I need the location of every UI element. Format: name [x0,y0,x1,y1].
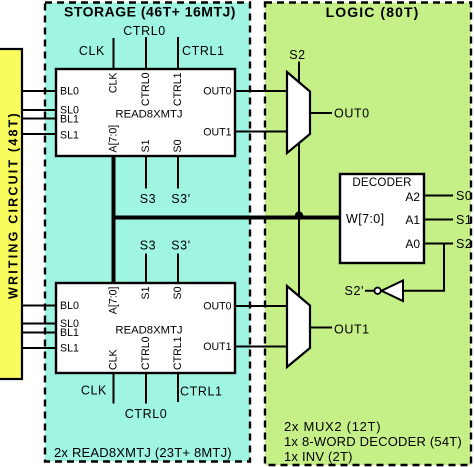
wire select line M1 to bus hop [298,143,300,212]
svg-text:OUT0: OUT0 [334,107,370,121]
svg-text:A0: A0 [405,237,420,251]
wire inverter output stub to node S2' [365,290,374,292]
svg-text:BL1: BL1 [60,114,79,126]
svg-text:BL1: BL1 [60,327,79,339]
wire S2 branch down to inverter [402,244,444,291]
svg-text:S1: S1 [140,139,152,152]
svg-text:CTRL1: CTRL1 [182,44,225,58]
wire S3 to U2 pin S1 [145,254,147,284]
svg-text:LOGIC (80T): LOGIC (80T) [326,4,420,20]
svg-text:BL0: BL0 [60,300,79,312]
svg-text:S2': S2' [345,284,364,298]
wire SL0 (writing circuit to U1) [21,109,56,111]
svg-text:CLK: CLK [79,44,105,58]
svg-text:CTRL1: CTRL1 [180,385,223,399]
block U2 READ8XMTJ [56,283,235,373]
wire CTRL0 stub bottom of U2 [145,373,147,404]
svg-text:SL1: SL1 [60,130,79,142]
wire BL1 (writing circuit to U1) [21,118,56,120]
svg-text:1x INV (2T): 1x INV (2T) [284,449,353,464]
block U1 READ8XMTJ [56,69,235,156]
svg-text:CLK: CLK [108,73,120,94]
wire BL1 (writing circuit to U2) [21,332,56,334]
wire SL1 (writing circuit to U2) [21,347,56,349]
wire SL1 (writing circuit to U1) [21,133,56,135]
svg-text:1x 8-WORD DECODER (54T): 1x 8-WORD DECODER (54T) [284,434,462,449]
svg-text:2x MUX2 (12T): 2x MUX2 (12T) [284,419,381,434]
svg-text:S2: S2 [289,48,306,62]
svg-text:S0: S0 [456,189,473,203]
svg-text:READ8XMTJ: READ8XMTJ [115,109,182,121]
svg-text:A[7:0]: A[7:0] [108,286,120,314]
svg-text:CTRL1: CTRL1 [172,336,184,370]
writing circuit block [0,49,22,379]
svg-text:CTRL0: CTRL0 [123,24,166,38]
svg-text:CLK: CLK [108,349,120,370]
svg-text:S0: S0 [172,286,184,299]
wire CTRL0 stub top of U1 [145,37,147,69]
wire BL0 (writing circuit to U2) [21,305,56,307]
inverter U4 (INV) [345,281,403,302]
wire CTRL1 stub top of U1 [177,37,179,69]
svg-text:CTRL1: CTRL1 [172,72,184,106]
wire CTRL1 stub bottom of U2 [177,373,179,402]
svg-text:A2: A2 [405,190,420,204]
svg-text:CLK: CLK [81,384,107,398]
wire select line bus hop to mux M2 [298,220,300,298]
svg-text:READ8XMTJ: READ8XMTJ [115,325,182,337]
wire S1 stub below U1 to node S3 [145,156,147,189]
wire SL0 (writing circuit to U2) [21,323,56,325]
svg-text:STORAGE (46T+ 16MTJ): STORAGE (46T+ 16MTJ) [64,3,236,19]
mux M1 (MUX2) [287,72,310,153]
wire A[7:0] vertical bus [112,155,116,284]
wire decoder output A0 to node S2 [424,243,453,245]
svg-text:BL0: BL0 [60,86,79,98]
svg-text:A[7:0]: A[7:0] [108,125,120,153]
wire decoder output A2 to node S0 [424,195,453,197]
svg-text:S3: S3 [140,239,157,253]
logic region box (dashed green) [265,3,471,466]
svg-text:OUT0: OUT0 [203,301,231,313]
svg-text:S1: S1 [140,286,152,299]
svg-text:DECODER: DECODER [352,176,411,189]
svg-text:S2: S2 [456,237,473,251]
block U3 DECODER [340,174,424,263]
svg-text:CTRL0: CTRL0 [140,336,152,370]
wire U1 OUT1 to mux M1 input [235,131,287,133]
wire hop of select line over bus [295,211,303,215]
wire decoder output A1 to node S1 [424,219,453,221]
svg-text:S3': S3' [171,239,190,253]
wire W[7:0] horizontal bus to decoder [112,216,342,220]
svg-text:S3': S3' [171,192,190,206]
wire U2 OUT1 to mux M2 input [235,346,287,348]
wire mux M1 output OUT0 [310,112,332,114]
storage region box (dashed cyan) [45,3,250,462]
wire U1 OUT0 to mux M1 input [235,90,287,92]
wire mux M2 output OUT1 [310,327,332,329]
svg-text:CTRL0: CTRL0 [140,72,152,106]
mux M2 (MUX2) [287,286,310,367]
svg-text:W[7:0]: W[7:0] [346,212,385,226]
svg-text:OUT1: OUT1 [203,127,231,139]
wire CLK stub top of U1 [113,38,115,69]
wire BL0 (writing circuit to U1) [21,90,56,92]
svg-text:OUT1: OUT1 [203,341,231,353]
svg-text:OUT1: OUT1 [334,323,370,337]
wire S0 stub below U1 to node S3' [177,156,179,189]
svg-text:A1: A1 [405,213,420,227]
wire S2 select stub into mux M1 [298,62,300,85]
svg-text:WRITING CIRCUIT (48T): WRITING CIRCUIT (48T) [7,111,21,299]
svg-text:S3: S3 [140,192,157,206]
wire U2 OUT0 to mux M2 input [235,305,287,307]
svg-text:CTRL0: CTRL0 [125,407,168,421]
wire S3' to U2 pin S0 [177,254,179,284]
svg-text:S1: S1 [456,213,473,227]
wire CLK stub bottom of U2 [113,373,115,404]
svg-text:SL1: SL1 [60,343,79,355]
svg-text:S0: S0 [172,139,184,152]
svg-text:OUT0: OUT0 [203,86,231,98]
svg-text:2x READ8XMTJ (23T+ 8MTJ): 2x READ8XMTJ (23T+ 8MTJ) [54,445,232,460]
